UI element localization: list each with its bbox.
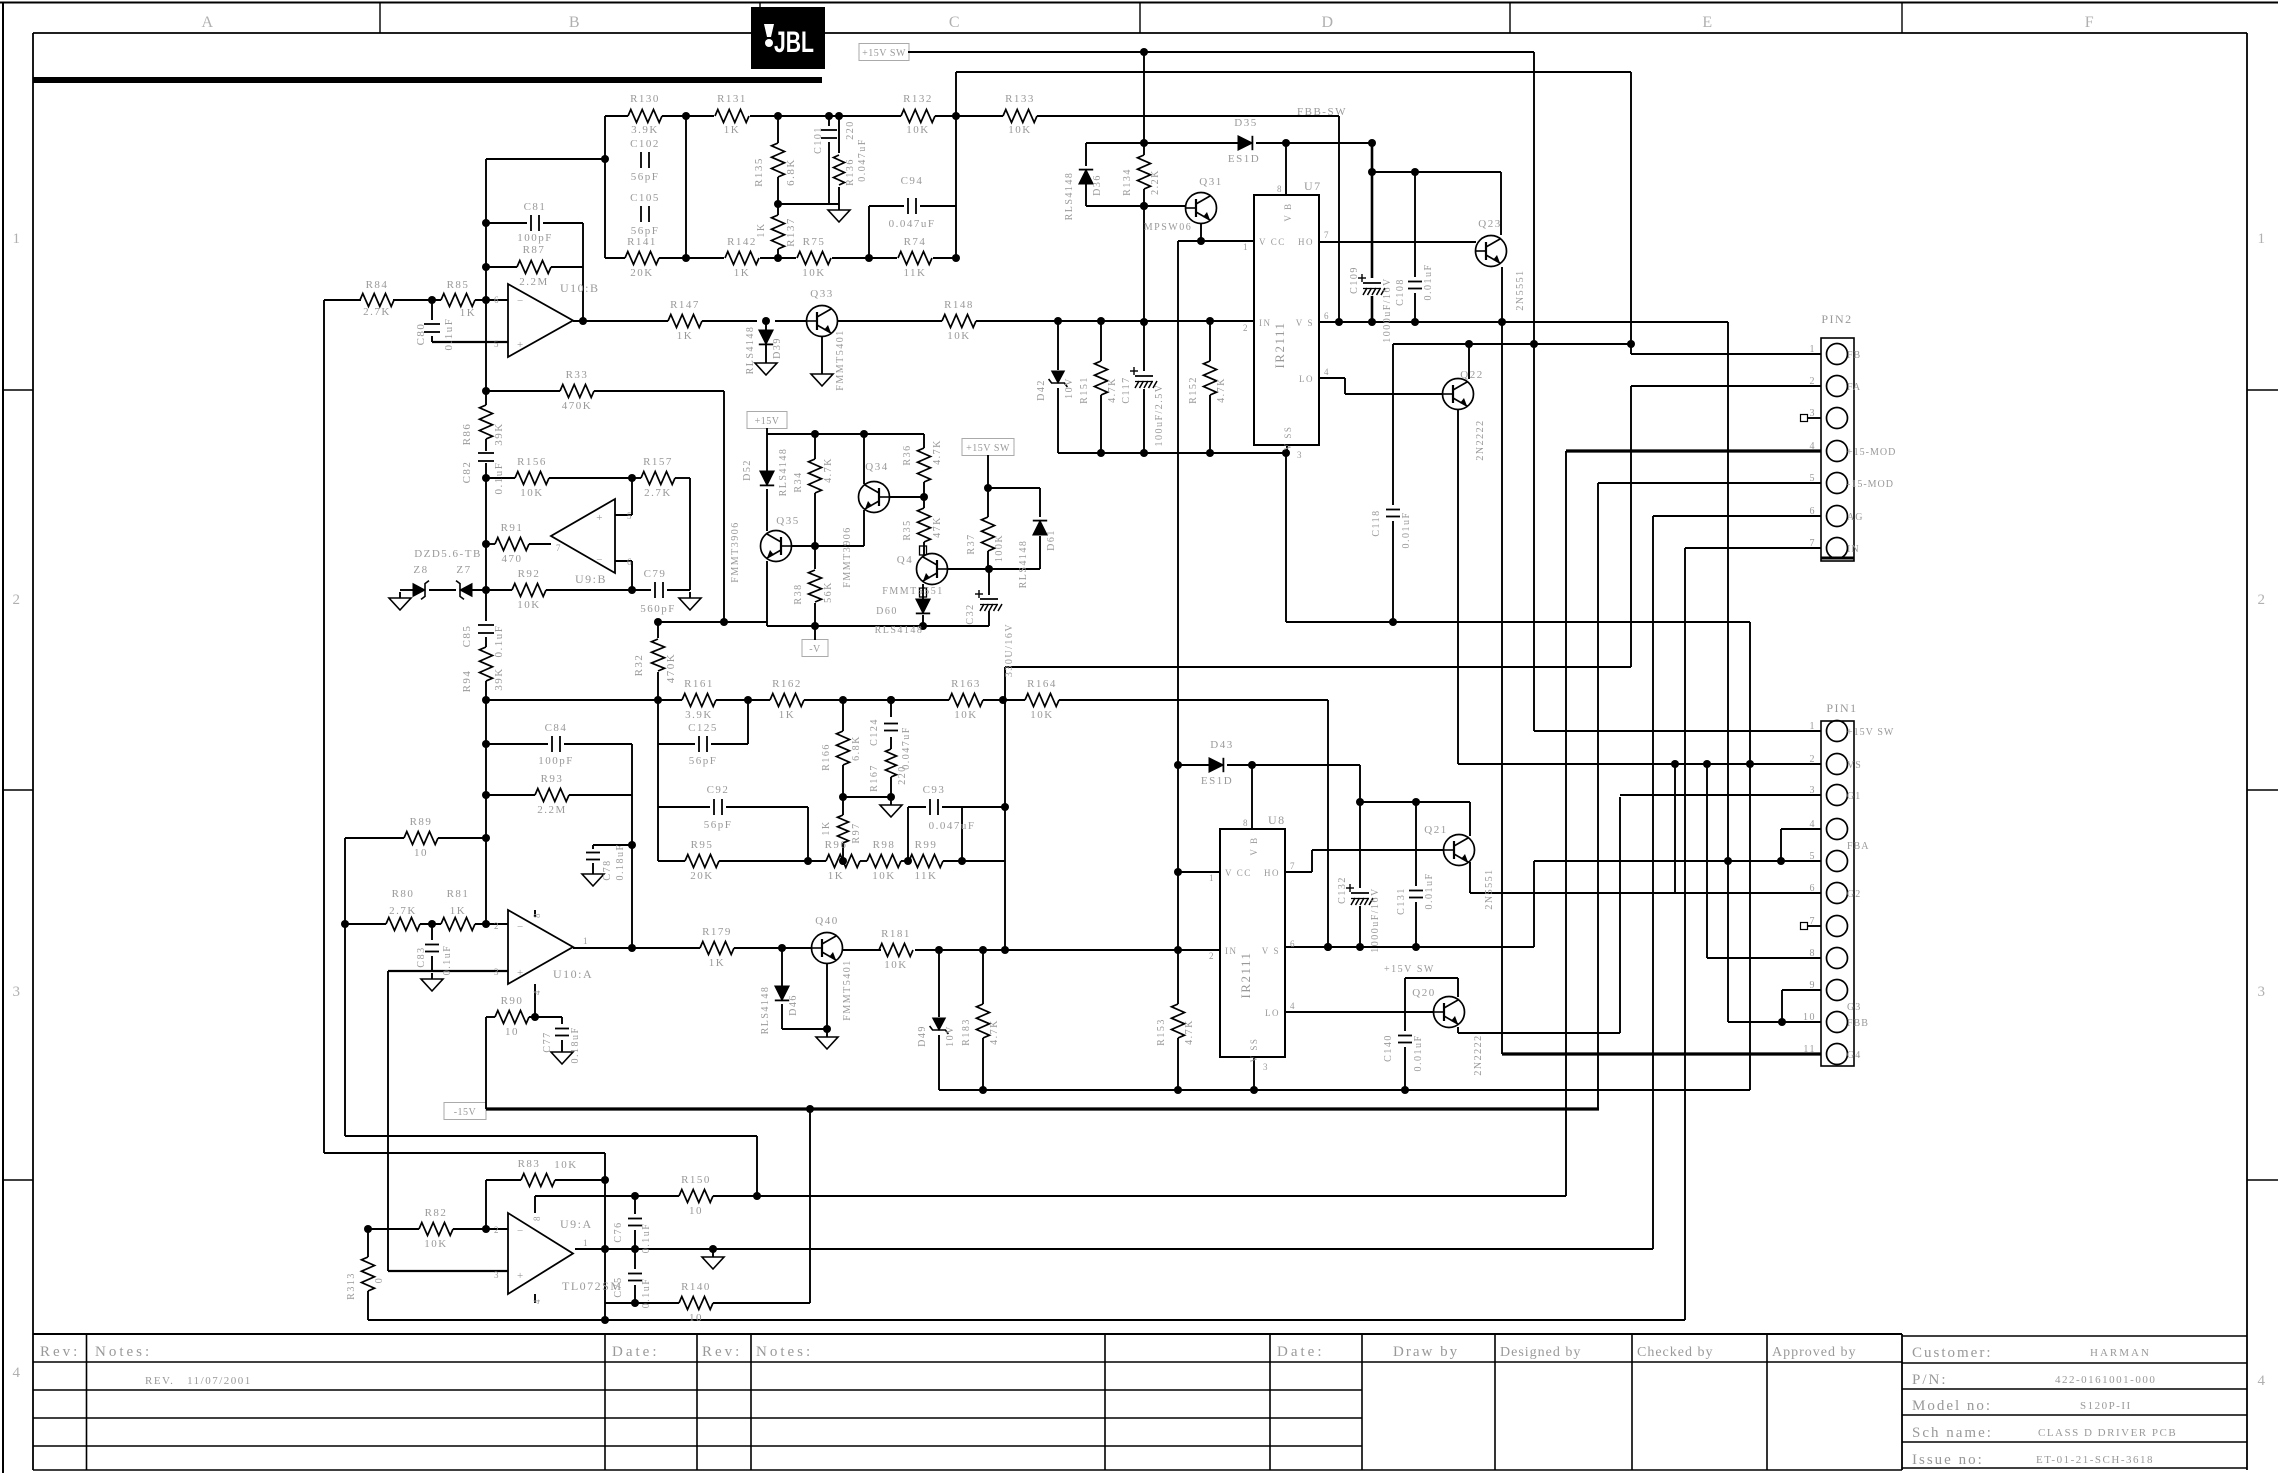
svg-text:+15V SW: +15V SW [966,443,1010,454]
svg-text:D42: D42 [1036,379,1047,401]
resistor R142 [725,252,759,265]
resistor R36 [918,448,931,482]
svg-text:3: 3 [1810,785,1817,796]
svg-text:1K: 1K [828,870,844,882]
resistor R164 [1025,694,1059,707]
svg-text:1000uF/16V: 1000uF/16V [1382,277,1393,343]
wire: U9:A pin8/R150 row [534,1196,536,1213]
wire: x=724 vertical [723,391,725,622]
wire: C83 branch [431,924,433,940]
wire: node row y=700 [486,699,682,701]
svg-text:R37: R37 [966,533,977,554]
svg-text:1: 1 [1810,344,1817,355]
revision table [33,1333,1902,1335]
wire: Q35 collector to -V rail [766,561,768,626]
resistor R135 [772,143,785,177]
svg-text:D43: D43 [1210,739,1233,751]
wire: FBB-SW corner vertical [1338,116,1340,322]
wire: PIN1 pin9 stub [1782,989,1821,991]
svg-text:U10:B: U10:B [560,281,600,295]
wire: U8 LO row to Q20 [1285,1011,1433,1013]
svg-text:E: E [1702,14,1713,31]
resistor R137 [772,215,785,249]
wire: input row to U10:B [324,299,361,301]
wire: C132 column [1359,802,1361,888]
frame column ticks [379,3,381,34]
svg-text:+15V SW: +15V SW [1847,727,1894,738]
svg-text:4: 4 [532,989,542,995]
svg-text:R147: R147 [670,299,700,311]
svg-text:39K: 39K [493,667,505,690]
svg-text:+15-MOD: +15-MOD [1847,447,1896,458]
wire: Q20 emitter to G1 [1457,1027,1459,1033]
wire: U8 VSS stub [1253,1057,1255,1090]
resistor R81 [441,918,475,931]
junction node R84/R85 [428,296,436,304]
wire: FA net x=1005 [1004,667,1006,950]
wire: x=1707 vertical to pin8 [1706,764,1708,958]
svg-text:R96: R96 [825,839,848,851]
wire: R97 column [842,797,844,815]
svg-text:S120P-II: S120P-II [2080,1400,2132,1412]
svg-text:V SS: V SS [1283,426,1293,451]
ground (C83) [431,973,433,979]
svg-text:2N2222: 2N2222 [1473,1034,1484,1075]
svg-text:R157: R157 [643,456,673,468]
svg-text:4.7K: 4.7K [823,457,834,483]
wire: R157/C79 right vertical [689,478,691,590]
svg-text:RLS4148: RLS4148 [760,986,771,1035]
ground (Q40) [826,1031,828,1037]
svg-text:R32: R32 [633,654,645,677]
svg-text:ET-01-21-SCH-3618: ET-01-21-SCH-3618 [2036,1454,2154,1466]
transistor Q31 [1186,193,1217,224]
op-amp U10:B [508,284,573,357]
svg-text:C102: C102 [630,138,660,150]
wire: R91 row to apex [486,543,495,545]
svg-text:D: D [1321,14,1334,31]
resistor R96 [826,855,860,868]
svg-text:C108: C108 [1395,278,1406,306]
transistor Q23 [1476,236,1507,267]
wire: R157 row [632,477,641,479]
svg-text:6.8K: 6.8K [785,158,797,186]
svg-text:C78: C78 [602,859,613,880]
svg-text:5: 5 [494,339,500,349]
wire: Q34 emitter [863,510,865,546]
wire: Q21 emitter to PIN1 pin6 row [1469,862,1471,893]
svg-text:10: 10 [1803,1012,1816,1023]
svg-text:1000uF/16V: 1000uF/16V [1370,887,1381,953]
svg-text:R81: R81 [447,888,470,900]
svg-text:Notes:: Notes: [95,1344,152,1360]
wire: C84/R93 loop [486,743,548,745]
svg-text:7: 7 [1324,230,1330,240]
svg-text:0.1uF: 0.1uF [641,1223,652,1254]
svg-text:−: − [517,1225,525,1237]
svg-text:5: 5 [627,511,633,521]
wire: C117 branch [1143,322,1145,371]
svg-text:C105: C105 [630,192,660,204]
wire: U9:B pin6 jog [615,560,632,562]
svg-text:10K: 10K [520,487,543,499]
wire: PIN1 pin7 stub [1807,925,1821,927]
svg-text:1K: 1K [734,267,750,279]
wire: U9:A pin3 row [388,1270,508,1272]
wire: x=388 long vertical [387,971,389,1271]
wire: U10:B feedback loop [485,159,487,300]
resistor R38 [809,570,822,602]
svg-text:+15V SW: +15V SW [862,48,906,59]
svg-text:6: 6 [494,295,500,305]
wire: C108 vertical [1414,172,1416,277]
svg-text:2N5551: 2N5551 [1515,269,1526,310]
svg-text:VS: VS [1847,760,1862,771]
capacitor C92 [713,799,715,815]
svg-text:A: A [201,14,214,31]
svg-text:2.2M: 2.2M [519,276,549,288]
svg-text:FMMT3906: FMMT3906 [842,526,853,587]
svg-text:R140: R140 [681,1281,711,1293]
wire: U10:A pin8 stub [534,910,536,917]
resistor R97 [838,815,849,843]
title block [1902,1335,2247,1337]
wire: U7 HO row to Q23 [1319,241,1476,243]
wire: C92 loop [657,744,659,807]
svg-text:C125: C125 [688,722,718,734]
wire: C109 bold vertical [1371,143,1374,278]
svg-text:1K: 1K [756,222,767,237]
svg-text:10K: 10K [872,870,895,882]
svg-text:100pF: 100pF [538,755,574,767]
svg-text:10K: 10K [884,959,907,971]
wire: D35/D36 row y=143 [1086,142,1238,144]
resistor R33 [560,385,594,398]
wire: base row y=206 [1086,205,1186,207]
svg-text:U9:B: U9:B [575,572,607,586]
svg-text:0.047uF: 0.047uF [889,218,936,230]
wire: -V stub [814,626,816,640]
+15V SW power label (top) [859,44,909,61]
transistor Q4 [917,554,948,585]
wire: D46 branch [781,948,783,986]
svg-text:R95: R95 [691,839,714,851]
svg-text:Issue no:: Issue no: [1912,1452,1984,1468]
wire: PIN2 pin1 net [1630,72,1632,354]
svg-text:RLS4148: RLS4148 [875,625,924,636]
svg-text:Q40: Q40 [815,915,838,927]
svg-text:R82: R82 [425,1207,448,1219]
diode D39 [759,330,773,344]
ground (Q33) [821,368,823,374]
svg-text:D49: D49 [917,1025,928,1047]
svg-text:R86: R86 [461,423,473,446]
wire: Q4 base row y=569 [947,568,1040,570]
svg-text:0.1uF: 0.1uF [443,318,455,351]
capacitor C108 [1408,281,1422,283]
svg-text:R97: R97 [851,822,862,843]
wire: -15V bold rail [486,1107,1599,1110]
wire: COM corner x=1750 [1749,622,1751,1090]
IC U8 IR2111 [1220,829,1285,1057]
svg-text:10K: 10K [906,124,929,136]
wire: U10:A pin3 row [388,970,508,972]
wire: D36 branch [1085,143,1087,166]
capacitor C125 [698,736,700,752]
svg-text:100K: 100K [994,534,1005,562]
svg-text:U8: U8 [1268,813,1286,827]
svg-text:C76: C76 [613,1221,624,1242]
wire: U7 VS row [1319,321,1728,323]
svg-text:R35: R35 [902,519,913,540]
svg-text:C80: C80 [415,323,427,346]
resistor R183 [977,1004,990,1038]
wire: D49 branch [938,950,940,1017]
svg-text:V S: V S [1262,946,1280,956]
wire: PIN2 pin7 IN [1685,547,1821,549]
resistor R133 [1003,110,1037,123]
svg-text:Customer:: Customer: [1912,1345,1993,1361]
svg-text:1K: 1K [677,330,693,342]
resistor R313 [362,1257,375,1291]
svg-text:3: 3 [494,967,500,977]
svg-text:U10:A: U10:A [553,967,593,981]
svg-text:8: 8 [532,1215,542,1221]
wire: R36 column [923,434,925,448]
svg-text:R181: R181 [881,928,911,940]
svg-text:8: 8 [1810,948,1817,959]
resistor R181 [879,944,913,957]
wire: PIN1 pin10 FBB row [1728,1021,1821,1023]
diode D52 [760,471,774,485]
wire: R130/C102/C105/R141 ladder rails [604,116,606,258]
svg-text:R132: R132 [903,93,933,105]
svg-text:1K: 1K [450,905,466,917]
svg-text:D46: D46 [788,994,799,1016]
svg-text:ES1D: ES1D [1228,153,1260,165]
svg-text:3: 3 [13,984,22,1000]
svg-text:1: 1 [1209,873,1215,883]
svg-text:PIN2: PIN2 [1821,312,1852,326]
wire: pin6 G2 row [1469,891,1471,893]
svg-text:FBB: FBB [1847,1018,1869,1029]
svg-text:−: − [517,295,525,307]
wire: PIN1 pin3 row [1620,794,1821,796]
svg-text:2N5551: 2N5551 [1484,868,1495,909]
wire: left input long vertical [323,300,325,1153]
wire: C94/R74 loop [869,205,904,207]
resistor R91 [495,538,529,551]
wire: C32 column [988,569,990,595]
wire: U8 HO jog to Q21 [1285,871,1312,873]
diode D46 [775,986,789,1000]
ground (D39) [765,357,767,363]
svg-text:RLS4148: RLS4148 [745,326,756,375]
svg-text:R313: R313 [346,1272,357,1300]
svg-text:R179: R179 [702,926,732,938]
resistor R147 [668,315,702,328]
svg-text:U7: U7 [1304,179,1322,193]
svg-text:+: + [517,967,525,979]
svg-text:100uF/2.5V: 100uF/2.5V [1154,383,1165,446]
svg-text:Notes:: Notes: [756,1344,813,1360]
capacitor C78 [586,852,600,854]
svg-text:2: 2 [1810,376,1817,387]
svg-text:Sch name:: Sch name: [1912,1425,1993,1441]
wire: Q34 base row [889,496,924,498]
wire: Q4 emitter to D60 [922,584,924,601]
svg-text:4.7K: 4.7K [1184,1019,1195,1045]
wire: PIN2 pin2 net [1631,385,1821,387]
wire: Q31 emitter to VCC row [1200,223,1202,241]
resistor R141 [625,252,659,265]
zener Z7 [460,584,472,597]
svg-text:R163: R163 [951,678,981,690]
wire: R183 branch [982,950,984,1004]
svg-text:3.9K: 3.9K [631,124,659,136]
resistor R87 [517,261,551,274]
resistor R80 [386,918,420,931]
wire: x=1328 corner to U8 VS [1327,700,1329,947]
diode D61 [1033,521,1047,535]
svg-text:10K: 10K [954,709,977,721]
svg-text:R33: R33 [566,369,589,381]
ground (C101/R136) [838,204,840,210]
svg-text:2.2K: 2.2K [1150,169,1161,195]
resistor R94 [480,647,493,681]
svg-text:R98: R98 [873,839,896,851]
svg-text:1K: 1K [821,820,832,835]
svg-text:4: 4 [2258,1373,2267,1389]
wire: y=116 row [605,115,628,117]
svg-text:R36: R36 [902,444,913,465]
wire: R140 right vertical [809,1109,811,1303]
svg-text:Rev:: Rev: [40,1344,80,1360]
wire: PIN1 pin5 FBA row [1534,860,1821,862]
capacitor C76 [628,1218,642,1220]
svg-text:C132: C132 [1337,876,1348,904]
svg-text:1: 1 [2258,231,2267,247]
svg-text:D39: D39 [772,337,783,359]
wire: Q35 cluster top rail y=434 [767,433,924,435]
resistor R157 [641,472,675,485]
svg-text:6: 6 [1290,939,1296,949]
wire: U7 LO row [1319,377,1345,379]
svg-text:4: 4 [1290,1001,1296,1011]
wire: y=622 Q35 row [658,621,767,623]
transistor Q34 [859,482,890,513]
-15V power label [444,1103,486,1120]
svg-text:R150: R150 [681,1174,711,1186]
svg-text:C94: C94 [901,175,924,187]
resistor R136 [834,155,845,185]
wire: R32 column [657,622,659,638]
svg-text:0: 0 [374,1277,385,1284]
capacitor C102 [640,152,642,168]
svg-text:0.047uF: 0.047uF [857,138,868,182]
resistor R153 [1172,1004,1185,1038]
svg-text:470K: 470K [665,653,677,683]
svg-text:C92: C92 [707,784,730,796]
svg-text:R133: R133 [1005,93,1035,105]
resistor R95 [685,855,719,868]
svg-text:10K: 10K [1030,709,1053,721]
wire: VCC long vertical x=1178 [1177,241,1179,872]
resistor R92 [512,584,546,597]
svg-text:V B: V B [1249,836,1259,855]
capacitor C117 electrolytic [1135,375,1153,377]
wire: Z-row corner x=757 [756,1136,758,1196]
svg-text:56pF: 56pF [704,819,733,831]
wire: VS-FBA vertical x=1728 [1727,322,1729,1022]
resistor R134 [1138,155,1151,189]
svg-text:3: 3 [1263,1062,1269,1072]
svg-text:RLS4148: RLS4148 [1064,172,1075,221]
svg-text:2: 2 [494,921,500,931]
svg-text:D61: D61 [1046,529,1057,551]
svg-text:FMMT5551: FMMT5551 [882,586,943,597]
wire: C77 branch [561,1017,563,1024]
svg-text:R152: R152 [1188,376,1199,404]
diode D42 zener [1052,371,1065,383]
capacitor C131 [1409,890,1423,892]
ground (zener row) [399,592,401,598]
capacitor C101 [821,129,837,131]
svg-text:R167: R167 [869,764,880,792]
transistor Q22 [1443,379,1474,410]
svg-text:Q22: Q22 [1460,369,1483,381]
+15V power label [747,412,787,429]
JBL logo [751,7,825,69]
svg-text:LO: LO [1265,1008,1280,1018]
svg-text:FMMT3906: FMMT3906 [730,521,741,582]
svg-text:+: + [517,339,525,351]
wire: C80 branch and pin5 [431,300,433,320]
svg-text:R141: R141 [627,236,657,248]
wire: U7 ground rail y=453 [1058,452,1287,454]
wire: Q23 emitter [1501,267,1503,322]
wire: FBA-SW vertical x=1360 [1359,765,1361,802]
capacitor C124 [884,723,898,725]
svg-text:1: 1 [1243,242,1249,252]
svg-text:C101: C101 [813,126,824,154]
svg-text:5: 5 [1810,473,1817,484]
svg-text:FMMT5401: FMMT5401 [835,329,846,390]
svg-text:1: 1 [1810,721,1817,732]
svg-text:0.01uF: 0.01uF [1401,511,1412,548]
wire: x=1675 vertical [1674,764,1676,893]
svg-text:−: − [517,921,525,933]
capacitor C32 electrolytic [980,598,998,600]
capacitor C80 [424,323,440,325]
svg-text:4: 4 [1324,367,1330,377]
svg-text:C93: C93 [923,784,946,796]
svg-text:20K: 20K [630,267,653,279]
svg-text:0.01uF: 0.01uF [1413,1034,1424,1071]
svg-text:R93: R93 [541,773,564,785]
wire: C93 loop [907,807,909,861]
resistor R150 [679,1190,713,1203]
resistor R89 [404,832,438,845]
capacitor C132 electrolytic [1351,892,1369,894]
capacitor C140 [1398,1035,1412,1037]
resistor R34 [809,459,822,493]
svg-text:Q20: Q20 [1412,987,1435,999]
svg-text:V CC: V CC [1225,868,1252,878]
-V power label [802,640,828,657]
svg-text:Designed by: Designed by [1500,1345,1581,1360]
svg-text:2.2M: 2.2M [537,804,567,816]
